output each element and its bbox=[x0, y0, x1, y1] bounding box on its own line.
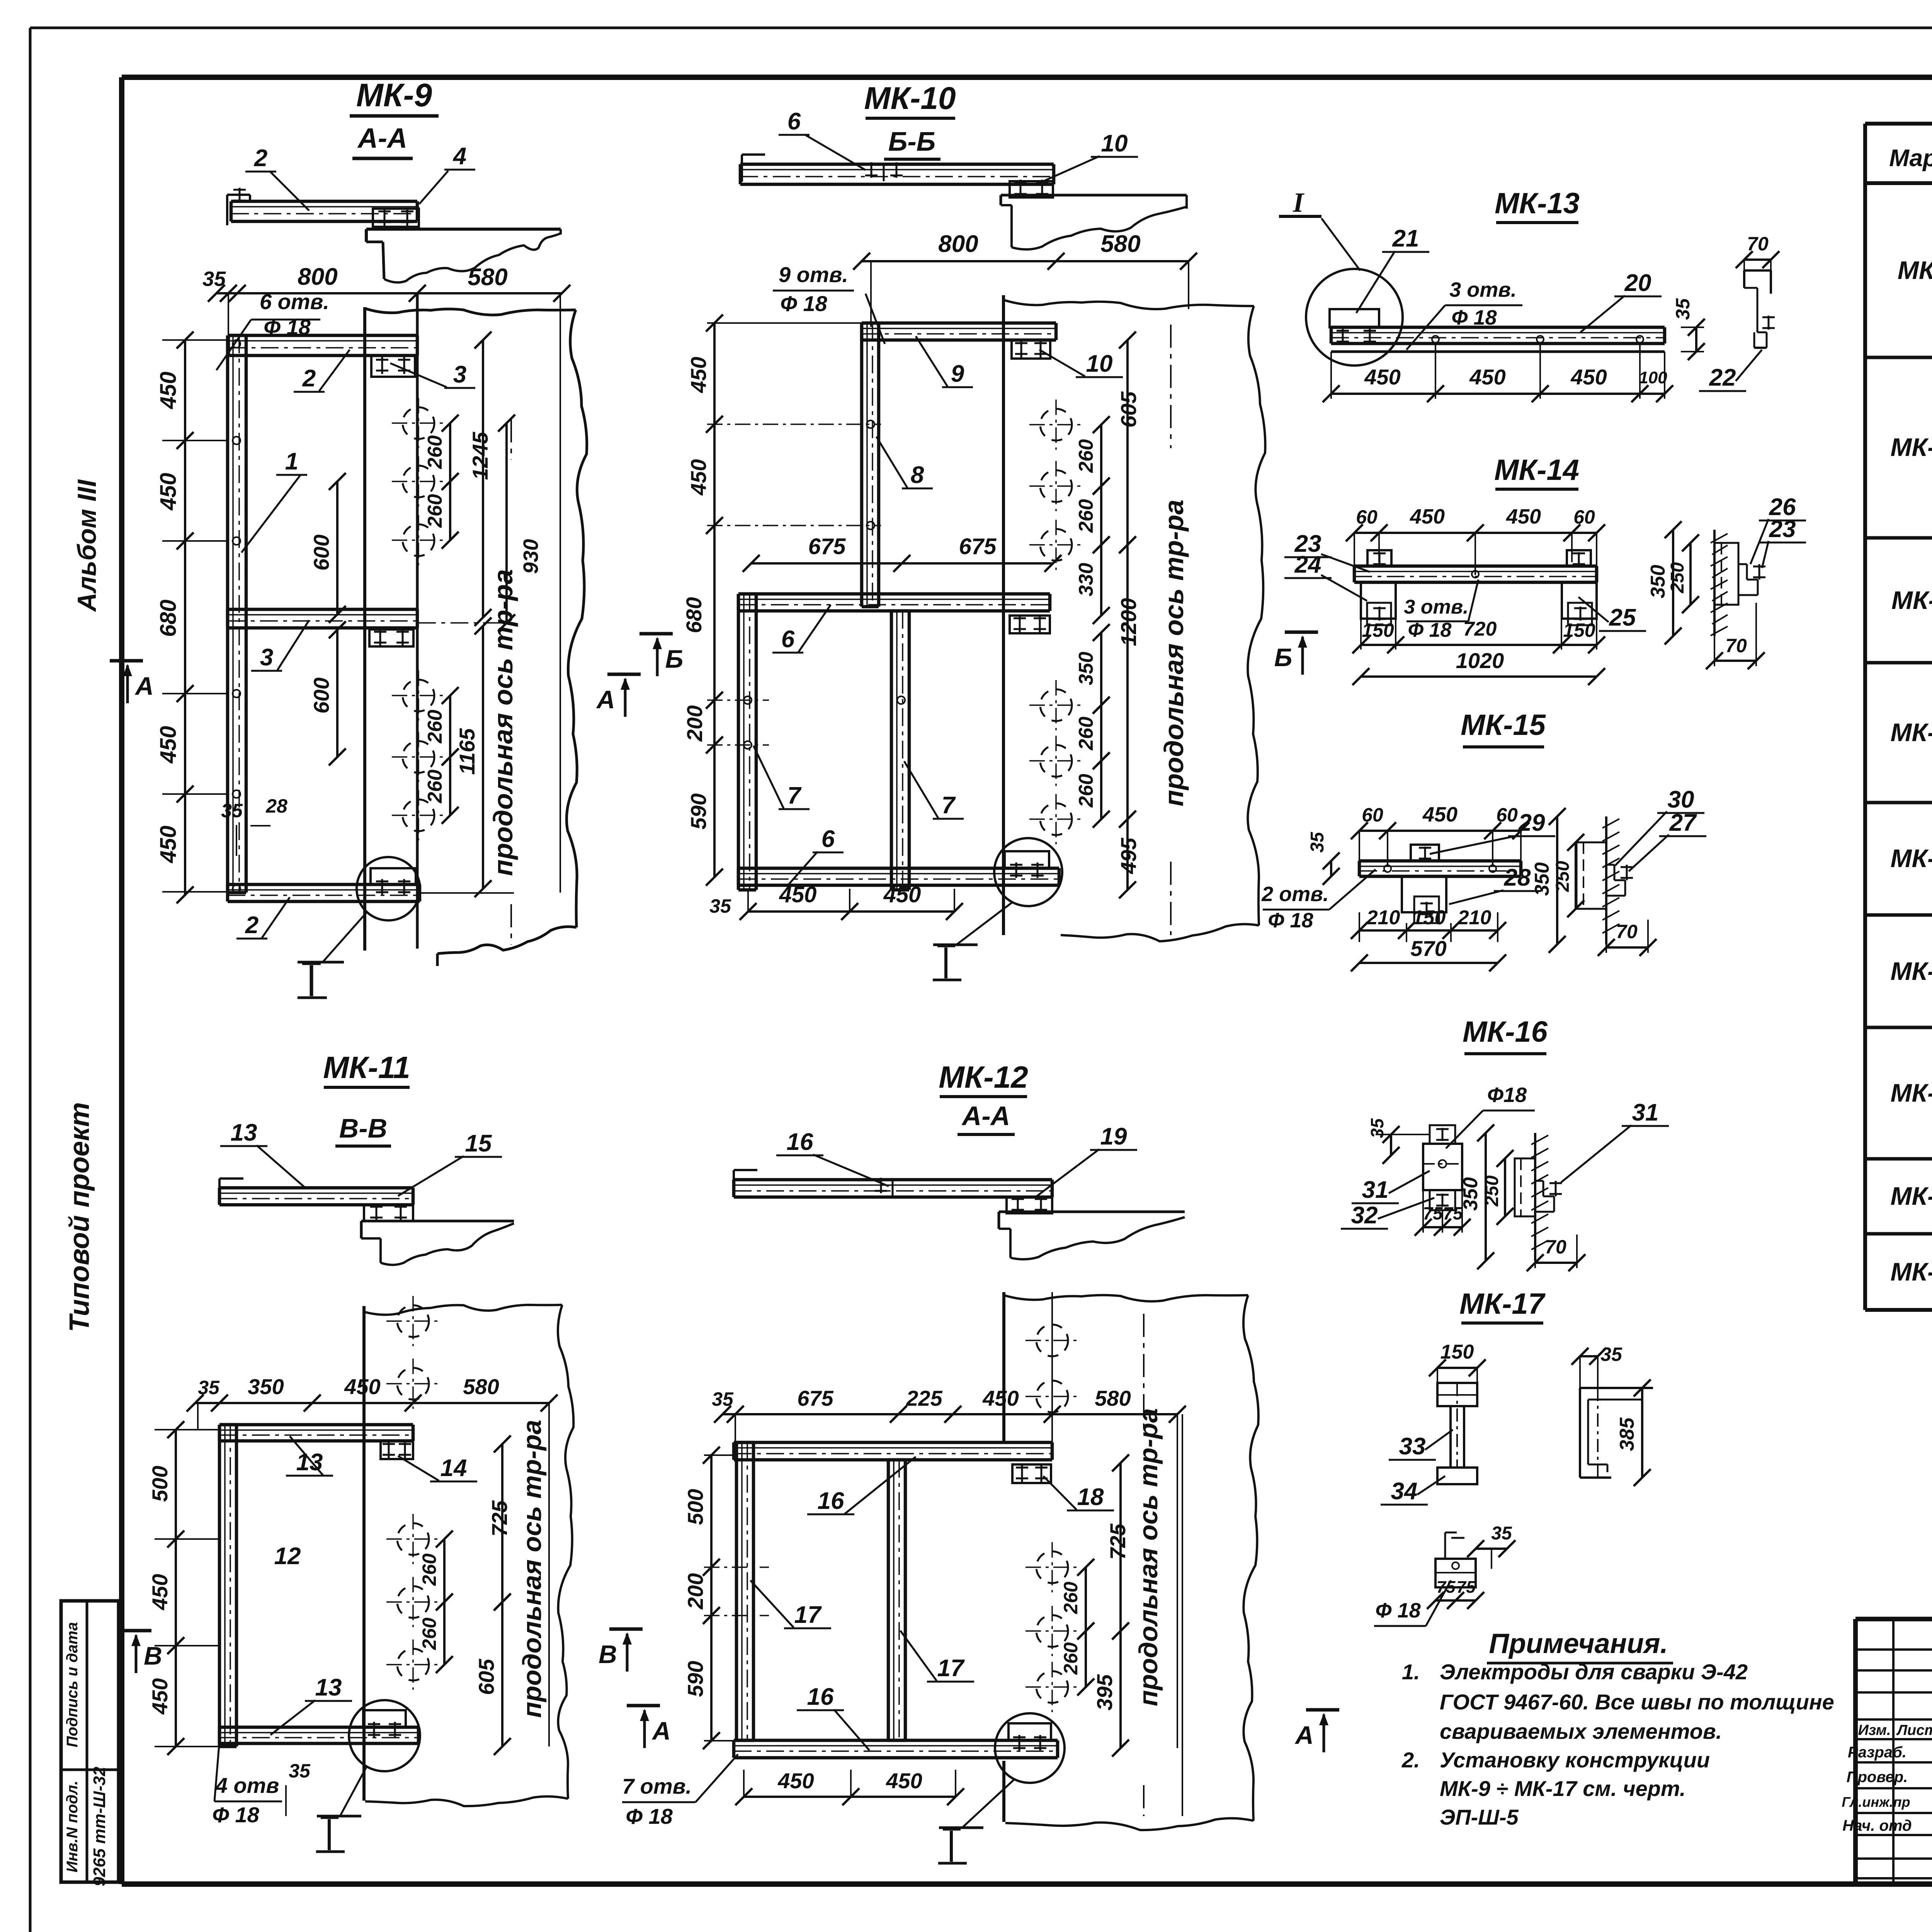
MK-11 holes upper bbox=[386, 1296, 440, 1409]
svg-text:ГОСТ 9467-60. Все швы по: ГОСТ 9467-60. Все швы по толщине bbox=[1440, 1690, 1834, 1714]
MK-10 label 7 mid bbox=[904, 761, 964, 819]
svg-text:350: 350 bbox=[1531, 862, 1553, 896]
subtitle A-A2 bbox=[957, 1101, 1015, 1134]
svg-text:3: 3 bbox=[453, 361, 466, 388]
svg-text:А: А bbox=[134, 672, 154, 700]
MK-13 label 21 bbox=[1356, 225, 1429, 313]
spec table group МК-11 bbox=[1865, 538, 1932, 666]
svg-text:1.: 1. bbox=[1402, 1660, 1420, 1684]
spec table group МК-15 bbox=[1865, 1027, 1932, 1162]
svg-text:35: 35 bbox=[289, 1760, 311, 1782]
title block row razrab bbox=[1848, 1741, 1932, 1761]
svg-text:МК-9: МК-9 bbox=[356, 77, 432, 113]
svg-text:Провер.: Провер. bbox=[1847, 1769, 1908, 1786]
spec table group МК-13 bbox=[1865, 803, 1932, 918]
svg-text:450: 450 bbox=[1469, 365, 1505, 389]
MK-10 label 9 otv f18 bbox=[773, 262, 885, 344]
MK-10 dims right 260/330/350 bbox=[1075, 416, 1110, 828]
MK-10 middle right plate bbox=[1010, 615, 1050, 633]
MK-9 holes lower bbox=[392, 670, 445, 840]
MK-9 label 6 otv f18 bbox=[216, 289, 329, 370]
spec table group МК-14 bbox=[1865, 913, 1932, 1031]
title block row nachotd bbox=[1842, 1815, 1932, 1835]
MK-9 label 3 mid bbox=[251, 620, 309, 671]
svg-text:Подпись и дата: Подпись и дата bbox=[64, 1622, 81, 1747]
MK-12 section wall bbox=[999, 1212, 1185, 1259]
svg-text:450: 450 bbox=[886, 1769, 922, 1793]
MK-16 label 31b bbox=[1561, 1099, 1669, 1182]
svg-text:МК-15: МК-15 bbox=[1891, 1078, 1932, 1107]
margin stamp box bbox=[61, 1601, 119, 1882]
svg-text:150: 150 bbox=[1440, 1341, 1474, 1363]
MK-14 dim 70b bbox=[1706, 603, 1765, 669]
svg-text:25: 25 bbox=[1609, 604, 1636, 631]
svg-text:8: 8 bbox=[911, 462, 924, 488]
note 2 line2 bbox=[1440, 1776, 1686, 1801]
MK-10 label 6 bbox=[779, 108, 866, 170]
MK-10 holes upper bbox=[1029, 400, 1083, 570]
MK-9 dim 930 bbox=[498, 415, 543, 631]
svg-text:450: 450 bbox=[777, 1769, 814, 1793]
MK-11 section wall bbox=[361, 1221, 514, 1265]
svg-text:Гл.инж.пр: Гл.инж.пр bbox=[1842, 1794, 1910, 1810]
MK-11 label 14 bbox=[398, 1455, 477, 1481]
MK-13 bracket section bbox=[1744, 270, 1775, 348]
svg-text:580: 580 bbox=[1095, 1386, 1131, 1410]
MK-11 dim 35 bottom bbox=[286, 1760, 311, 1816]
svg-text:450: 450 bbox=[883, 882, 921, 907]
MK-17 dim 150 bbox=[1429, 1341, 1486, 1383]
MK-17 dim 35e bbox=[1571, 1344, 1622, 1388]
note 1 line2 bbox=[1440, 1690, 1834, 1714]
svg-text:Типовой проект: Типовой проект bbox=[64, 1102, 95, 1332]
MK-10 section bar detail 6 bbox=[740, 155, 1054, 184]
MK-9 holes upper bbox=[392, 398, 445, 565]
svg-text:60: 60 bbox=[1496, 804, 1518, 826]
MK-16 wall hatch section bbox=[1515, 1133, 1562, 1261]
MK-10 detail circle I bbox=[933, 838, 1062, 980]
MK-15 dim 35 bbox=[1307, 832, 1340, 885]
svg-text:В-В: В-В bbox=[339, 1113, 387, 1143]
MK-15 bar detail 27 bbox=[1359, 861, 1521, 876]
svg-text:10: 10 bbox=[1101, 130, 1128, 157]
svg-text:330: 330 bbox=[1075, 563, 1097, 597]
svg-text:70: 70 bbox=[1725, 635, 1747, 656]
svg-text:6: 6 bbox=[787, 108, 801, 135]
svg-text:9 отв.: 9 отв. bbox=[779, 262, 848, 287]
svg-text:200: 200 bbox=[683, 1573, 707, 1609]
MK-9 transformer axis bbox=[488, 419, 518, 945]
svg-text:350: 350 bbox=[1075, 652, 1097, 685]
svg-text:680: 680 bbox=[682, 597, 706, 633]
MK-12 dim 450 450 bottom bbox=[735, 1769, 964, 1805]
MK-14 bottom plates detail 24 bbox=[1361, 582, 1597, 625]
MK-10 dim 605 bbox=[1116, 332, 1141, 553]
MK-9 top bar detail 2 bbox=[228, 335, 417, 355]
MK-17 section mark A bbox=[1294, 1710, 1339, 1752]
svg-text:580: 580 bbox=[463, 1374, 499, 1399]
svg-text:260: 260 bbox=[424, 435, 446, 469]
svg-text:725: 725 bbox=[1105, 1523, 1130, 1560]
svg-text:14: 14 bbox=[440, 1455, 467, 1481]
svg-text:А: А bbox=[651, 1716, 671, 1745]
MK-10 mid vertical bar detail 7 bbox=[891, 611, 909, 890]
svg-text:260: 260 bbox=[1060, 1582, 1082, 1614]
svg-text:500: 500 bbox=[683, 1489, 707, 1525]
title MK-10 bbox=[864, 81, 956, 118]
svg-text:12: 12 bbox=[274, 1543, 301, 1570]
svg-text:А-А: А-А bbox=[961, 1101, 1010, 1131]
svg-text:580: 580 bbox=[468, 264, 507, 291]
MK-9 label 4 bbox=[419, 143, 475, 204]
svg-text:ЭП-Ш-5: ЭП-Ш-5 bbox=[1440, 1805, 1519, 1829]
svg-text:800: 800 bbox=[938, 231, 978, 257]
MK-12 dim 725 bbox=[1105, 1454, 1130, 1639]
svg-text:450: 450 bbox=[156, 826, 181, 864]
svg-text:675: 675 bbox=[797, 1386, 833, 1410]
note 1 line3 bbox=[1440, 1719, 1722, 1743]
svg-text:Электроды для сварки Э-42: Электроды для сварки Э-42 bbox=[1440, 1660, 1748, 1684]
MK-12 wall edges bbox=[1004, 1292, 1259, 1830]
spec table group МК-10 bbox=[1865, 357, 1932, 541]
notes title bbox=[1487, 1628, 1673, 1663]
svg-text:6 отв.: 6 отв. bbox=[260, 289, 329, 314]
svg-text:Установку конструкции: Установку конструкции bbox=[1440, 1748, 1710, 1772]
svg-text:18: 18 bbox=[1077, 1484, 1104, 1510]
svg-text:450: 450 bbox=[982, 1386, 1019, 1410]
MK-14 label 3otv f18 bbox=[1404, 580, 1478, 641]
svg-text:15: 15 bbox=[465, 1130, 492, 1157]
MK-12 section bar detail 16 bbox=[734, 1170, 1052, 1197]
MK-16 dim 70d bbox=[1527, 1235, 1585, 1271]
svg-text:495: 495 bbox=[1116, 837, 1141, 874]
MK-17 label f18b bbox=[1374, 1580, 1451, 1626]
MK-9 wall edge bbox=[365, 307, 587, 966]
MK-10 label 9 bbox=[916, 336, 973, 387]
MK-15 label 2otv bbox=[1261, 869, 1376, 932]
subtitle A-A bbox=[352, 123, 413, 158]
svg-text:70: 70 bbox=[1616, 921, 1638, 942]
MK-9 section bar detail 2 bbox=[227, 188, 417, 225]
svg-text:1200: 1200 bbox=[1116, 598, 1141, 646]
MK-10 holes lower bbox=[1029, 680, 1083, 844]
MK-13 detail I mark bbox=[1279, 187, 1360, 270]
svg-text:9265 тт-Ш-32: 9265 тт-Ш-32 bbox=[90, 1767, 109, 1886]
note 2 line3 bbox=[1440, 1805, 1519, 1829]
MK-14 bar detail 23 bbox=[1354, 566, 1597, 582]
svg-text:МК-13: МК-13 bbox=[1495, 187, 1580, 220]
MK-14 label 25 bbox=[1578, 597, 1646, 631]
MK-11 section mark V right bbox=[599, 1629, 643, 1672]
svg-text:260: 260 bbox=[424, 770, 446, 804]
svg-text:4: 4 bbox=[452, 143, 466, 170]
svg-text:2: 2 bbox=[245, 912, 259, 939]
svg-text:Б-Б: Б-Б bbox=[888, 126, 935, 156]
MK-10 dim 1200 bbox=[1116, 536, 1141, 828]
MK-9 label 2 top bbox=[245, 145, 309, 211]
svg-text:1020: 1020 bbox=[1456, 648, 1504, 673]
title MK-13 bbox=[1495, 187, 1580, 223]
MK-12 label 16 bar bbox=[807, 1457, 916, 1514]
MK-11 dim 725 bbox=[487, 1435, 512, 1611]
MK-14 dims 150 720 150 bbox=[1352, 618, 1605, 653]
svg-text:6: 6 bbox=[821, 826, 835, 852]
MK-17 dims 75 75b bbox=[1427, 1578, 1484, 1609]
MK-12 transformer axis bbox=[1134, 1314, 1163, 1816]
svg-text:260: 260 bbox=[418, 1553, 440, 1586]
svg-text:МК-16: МК-16 bbox=[1891, 1182, 1932, 1210]
MK-10 label 10 top bbox=[1036, 130, 1138, 185]
svg-text:600: 600 bbox=[309, 534, 333, 570]
svg-text:385: 385 bbox=[1616, 1417, 1638, 1451]
MK-9 middle right plate bbox=[369, 628, 413, 646]
MK-13 plate detail 21 bbox=[1330, 309, 1379, 344]
svg-text:210: 210 bbox=[1366, 906, 1400, 929]
MK-14 labels 26 23 bbox=[1750, 494, 1806, 568]
MK-16 label f18 bbox=[1446, 1083, 1535, 1148]
svg-text:260: 260 bbox=[418, 1617, 440, 1650]
margin stamp text podpis bbox=[64, 1622, 81, 1747]
margin text Tipovoy proekt bbox=[64, 1102, 95, 1332]
svg-text:4 отв: 4 отв bbox=[215, 1773, 279, 1798]
MK-15 dims 210 150 210 bbox=[1351, 906, 1506, 942]
svg-text:МК-16: МК-16 bbox=[1463, 1015, 1548, 1048]
MK-11 label 15 bbox=[398, 1130, 502, 1196]
note 2 line1 bbox=[1401, 1748, 1710, 1772]
MK-12 top right plate detail 18 bbox=[1012, 1464, 1051, 1483]
MK-12 right dim extension bbox=[1182, 1414, 1183, 1816]
svg-text:2.: 2. bbox=[1401, 1748, 1420, 1772]
svg-text:Марка: Марка bbox=[1889, 145, 1932, 172]
MK-9 section mark A left bbox=[110, 661, 154, 703]
MK-11 section plate detail 15 bbox=[364, 1203, 413, 1221]
MK-13 label 20 bbox=[1580, 270, 1662, 332]
MK-10 top right plate detail 10 bbox=[1012, 340, 1050, 359]
svg-text:75: 75 bbox=[1437, 1578, 1456, 1597]
MK-12 left vertical bar detail 17 bbox=[736, 1442, 753, 1740]
MK-9 dim 260 upper bbox=[424, 415, 459, 549]
MK-10 label 10 bbox=[1039, 350, 1123, 377]
svg-text:Ф 18: Ф 18 bbox=[1375, 1599, 1420, 1622]
MK-14 labels 23 24 bbox=[1284, 531, 1370, 601]
svg-text:31: 31 bbox=[1632, 1099, 1659, 1126]
MK-15 dim 60-450-60 bbox=[1351, 803, 1529, 866]
MK-16 part bbox=[1423, 1125, 1462, 1210]
svg-text:МК-14: МК-14 bbox=[1494, 454, 1579, 486]
MK-11 section mark A right bbox=[627, 1447, 769, 1749]
svg-text:450: 450 bbox=[148, 1574, 172, 1610]
svg-text:МК-11: МК-11 bbox=[323, 1050, 410, 1085]
MK-9 holes line bbox=[416, 293, 419, 949]
svg-text:МК-10: МК-10 bbox=[864, 81, 956, 116]
MK-11 vertical bar detail 12 bbox=[219, 1425, 236, 1747]
MK-11 wall edges bbox=[364, 1305, 573, 1806]
svg-text:А: А bbox=[596, 685, 615, 714]
MK-15 wall hatch section bbox=[1577, 816, 1633, 944]
MK-16 dims 75 75 bbox=[1415, 1190, 1471, 1236]
svg-text:МК-15: МК-15 bbox=[1461, 709, 1546, 742]
svg-text:I: I bbox=[1293, 187, 1305, 218]
svg-text:675: 675 bbox=[959, 534, 997, 559]
svg-text:600: 600 bbox=[309, 677, 333, 713]
svg-text:150: 150 bbox=[1412, 906, 1446, 929]
svg-text:продольная ось тр-ра: продольная ось тр-ра bbox=[1134, 1408, 1163, 1706]
MK-11 label 4otv bbox=[212, 1741, 282, 1827]
svg-text:590: 590 bbox=[686, 793, 711, 829]
svg-text:9: 9 bbox=[951, 361, 964, 387]
svg-text:260: 260 bbox=[1075, 499, 1097, 533]
svg-text:450: 450 bbox=[686, 357, 711, 393]
MK-10 dim 675 675 bbox=[743, 534, 1061, 572]
title MK-12 bbox=[939, 1060, 1028, 1097]
svg-text:16: 16 bbox=[807, 1684, 834, 1710]
MK-13 bar detail 20 bbox=[1331, 327, 1665, 352]
svg-text:35: 35 bbox=[709, 895, 731, 917]
svg-text:24: 24 bbox=[1294, 551, 1321, 578]
svg-text:260: 260 bbox=[424, 494, 446, 528]
svg-text:2 отв.: 2 отв. bbox=[1261, 883, 1329, 906]
svg-text:Ф 18: Ф 18 bbox=[780, 291, 827, 316]
svg-text:13: 13 bbox=[231, 1119, 257, 1146]
MK-9 dim 1165 bbox=[455, 617, 492, 897]
svg-text:450: 450 bbox=[686, 459, 711, 495]
MK-12 label 16 bottom bbox=[797, 1684, 869, 1750]
svg-text:35: 35 bbox=[202, 267, 226, 291]
svg-text:Инв.N подл.: Инв.N подл. bbox=[64, 1781, 81, 1872]
MK-14 wall hatch section bbox=[1711, 530, 1765, 636]
title block header row bbox=[1858, 1721, 1932, 1738]
MK-15 label 29 bbox=[1430, 810, 1555, 854]
MK-9 label 1 bbox=[241, 448, 307, 553]
MK-13 detail circle bbox=[1306, 269, 1403, 366]
svg-text:30: 30 bbox=[1668, 786, 1694, 813]
MK-11 label 13 bar bbox=[286, 1436, 333, 1476]
MK-10 wall edges bbox=[1003, 295, 1265, 941]
svg-text:350: 350 bbox=[1459, 1177, 1482, 1211]
MK-11 holes lower bbox=[386, 1514, 440, 1690]
MK-12 bottom bar detail 16 bbox=[734, 1740, 1058, 1758]
MK-15 dim 350 250b bbox=[1531, 808, 1584, 953]
MK-10 section plate detail 10 bbox=[1010, 180, 1053, 197]
svg-text:МК-17: МК-17 bbox=[1459, 1287, 1546, 1320]
svg-text:35: 35 bbox=[198, 1377, 220, 1398]
MK-10 top bar detail 9 bbox=[862, 323, 1056, 340]
svg-text:10: 10 bbox=[1086, 350, 1113, 377]
svg-text:Ф 18: Ф 18 bbox=[1451, 306, 1497, 329]
margin stamp text inv bbox=[64, 1781, 81, 1872]
MK-10 vertical bar detail 8 bbox=[862, 323, 879, 607]
MK-12 dim 260s bbox=[1060, 1559, 1094, 1696]
svg-text:МК-12: МК-12 bbox=[1891, 718, 1932, 747]
MK-11 section bar detail 13 bbox=[219, 1179, 413, 1205]
svg-text:1: 1 bbox=[285, 448, 298, 475]
MK-10 label 8 bbox=[876, 437, 933, 488]
svg-text:605: 605 bbox=[474, 1658, 498, 1695]
svg-text:7: 7 bbox=[787, 782, 802, 809]
svg-text:МК-10: МК-10 bbox=[1891, 433, 1932, 461]
svg-text:Ф 18: Ф 18 bbox=[1408, 619, 1452, 641]
MK-15 label 28 bbox=[1449, 864, 1541, 904]
spec table group МК-12 bbox=[1865, 663, 1932, 806]
svg-text:35: 35 bbox=[221, 800, 243, 821]
MK-17 part front bbox=[1437, 1383, 1477, 1484]
svg-text:70: 70 bbox=[1747, 233, 1769, 255]
MK-17 labels 33 34 bbox=[1381, 1430, 1453, 1505]
MK-11 top bar detail 13 bbox=[219, 1425, 413, 1441]
svg-text:210: 210 bbox=[1458, 906, 1492, 929]
svg-text:продольная ось тр-ра: продольная ось тр-ра bbox=[1159, 500, 1189, 806]
MK-12 section plate detail 19 bbox=[1007, 1196, 1052, 1213]
MK-9 vertical bar detail 1 bbox=[228, 335, 246, 893]
svg-text:Изм.: Изм. bbox=[1858, 1722, 1891, 1738]
svg-text:260: 260 bbox=[1075, 717, 1097, 751]
MK-9 section mark A right bbox=[596, 674, 641, 717]
svg-text:450: 450 bbox=[1410, 505, 1445, 528]
svg-text:Ф 18: Ф 18 bbox=[626, 1804, 673, 1828]
svg-text:Ф 18: Ф 18 bbox=[1268, 909, 1313, 932]
svg-text:450: 450 bbox=[779, 882, 817, 907]
MK-12 label 19 bbox=[1036, 1123, 1137, 1197]
svg-text:200: 200 bbox=[682, 705, 707, 742]
MK-13 label 22 bbox=[1699, 350, 1762, 391]
title block grid bbox=[1855, 1619, 1932, 1884]
title MK-15 bbox=[1461, 709, 1546, 747]
MK-17 bracket section bbox=[1580, 1388, 1653, 1478]
svg-text:60: 60 bbox=[1356, 506, 1378, 528]
svg-text:725: 725 bbox=[487, 1500, 512, 1536]
svg-text:35: 35 bbox=[1491, 1523, 1512, 1544]
svg-text:60: 60 bbox=[1573, 506, 1595, 528]
svg-text:В: В bbox=[599, 1640, 617, 1668]
MK-9 dim 600 upper bbox=[309, 473, 346, 623]
svg-text:продольная ось тр-ра: продольная ось тр-ра bbox=[517, 1420, 547, 1718]
svg-text:Примечания.: Примечания. bbox=[1489, 1628, 1668, 1659]
svg-text:1245: 1245 bbox=[468, 432, 492, 480]
MK-11 label 12 bbox=[274, 1543, 301, 1570]
MK-12 holes upper bbox=[1026, 1315, 1079, 1422]
svg-text:МК-9: МК-9 bbox=[1898, 256, 1932, 284]
svg-text:260: 260 bbox=[1075, 774, 1097, 808]
svg-text:19: 19 bbox=[1100, 1123, 1127, 1150]
svg-text:27: 27 bbox=[1669, 810, 1697, 836]
MK-12 dim 35-675-225-450-580 bbox=[712, 1386, 1186, 1748]
MK-11 dim 35-350-450-580 bbox=[187, 1374, 558, 1747]
svg-text:450: 450 bbox=[344, 1374, 380, 1399]
MK-9 dim 35-800-580 bbox=[202, 264, 570, 893]
MK-9 section mark B right bbox=[639, 634, 683, 676]
svg-text:20: 20 bbox=[1624, 270, 1651, 296]
MK-17 dim 385 bbox=[1616, 1379, 1651, 1486]
MK-11 section mark V left bbox=[118, 1631, 162, 1673]
MK-12 holes lower bbox=[1026, 1542, 1079, 1712]
MK-9 section plate detail 4 bbox=[373, 208, 419, 227]
title MK-9 bbox=[350, 77, 439, 116]
svg-text:1165: 1165 bbox=[455, 728, 479, 775]
MK-15 top plate bbox=[1411, 845, 1439, 861]
MK-11 label 13 top bbox=[220, 1119, 305, 1188]
MK-14 hole mid bbox=[1472, 571, 1479, 578]
MK-12 dim 395 bbox=[1092, 1622, 1129, 1757]
title MK-17 bbox=[1459, 1287, 1546, 1323]
MK-14 dim 60-450-450-60 bbox=[1346, 505, 1605, 575]
svg-text:13: 13 bbox=[315, 1674, 342, 1701]
MK-10 bottom bar detail 6 bbox=[738, 868, 1059, 885]
MK-10 transformer axis bbox=[1159, 325, 1189, 935]
svg-text:150: 150 bbox=[1563, 619, 1595, 641]
svg-text:7: 7 bbox=[942, 792, 956, 819]
svg-text:В: В bbox=[144, 1641, 162, 1670]
svg-text:580: 580 bbox=[1100, 231, 1140, 257]
